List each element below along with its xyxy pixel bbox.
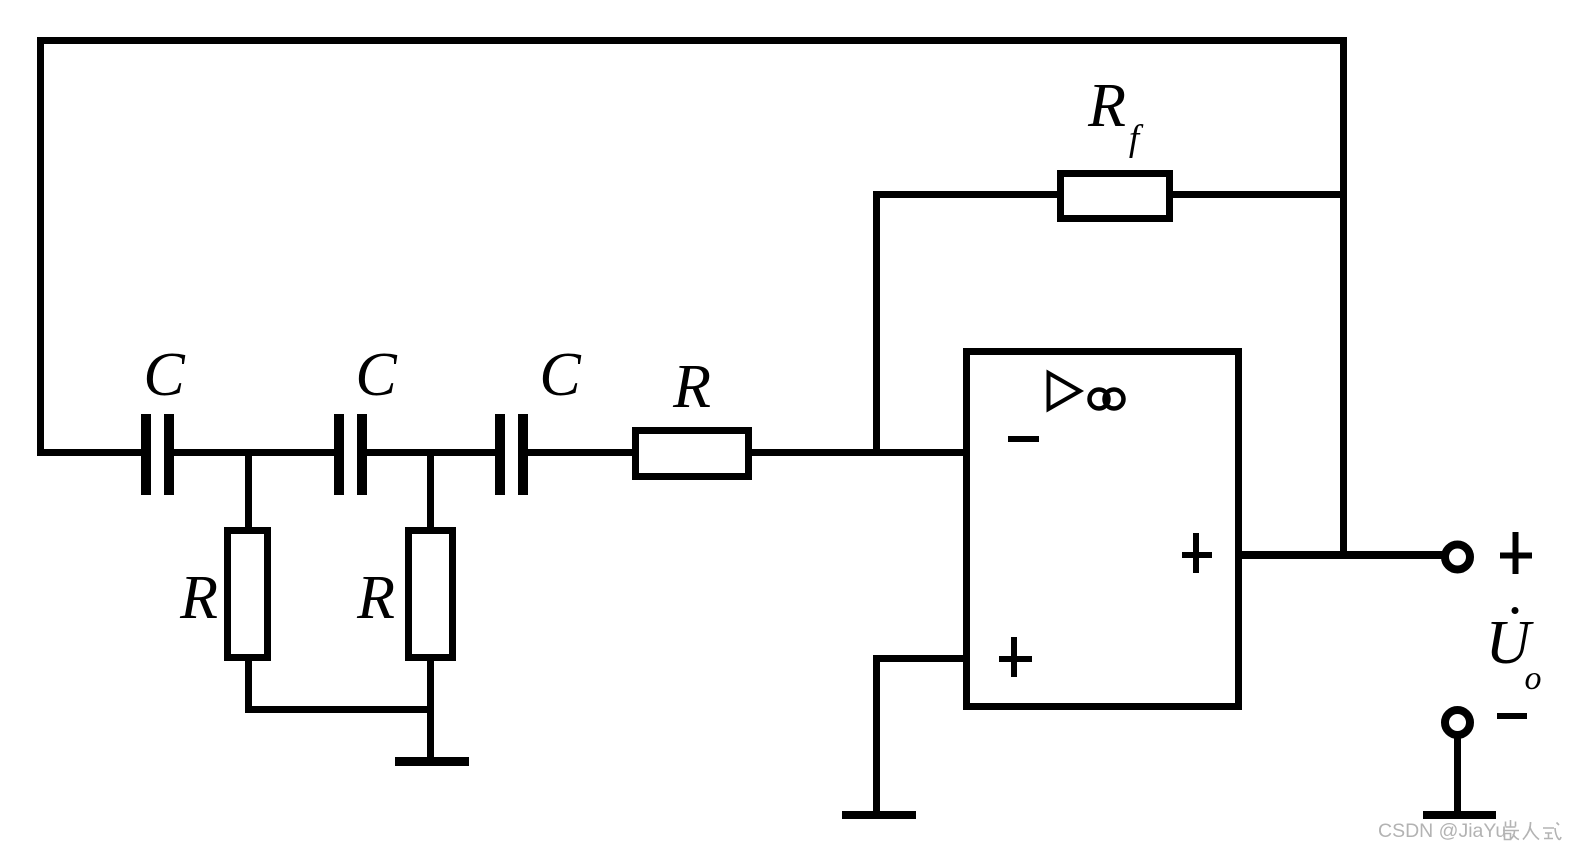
svg-text:CSDN @JiaYu: CSDN @JiaYu: [1378, 820, 1506, 842]
label Uo: [1486, 607, 1542, 697]
node J2 wire down: [427, 452, 434, 530]
capacitor C1: [141, 414, 174, 495]
op-amp output plus sign: [1182, 533, 1212, 573]
wire Rf left: [873, 191, 1061, 198]
op-amp minus input sign: [1008, 436, 1039, 442]
svg-text:C: C: [143, 341, 185, 409]
wire bottom horizontal: [245, 706, 434, 713]
resistor Rf: [1061, 174, 1170, 219]
svg-text:R: R: [356, 564, 395, 632]
wire C3 to R: [527, 449, 632, 456]
wire R1 bottom: [245, 661, 252, 713]
resistor R1 shunt: [228, 531, 268, 658]
wire lower terminal to ground: [1454, 735, 1461, 811]
watermark CSDN: [1378, 820, 1561, 842]
wire Rf right: [1173, 191, 1347, 198]
ground G3: [1423, 811, 1496, 819]
ground G1: [395, 757, 469, 766]
capacitor C3: [495, 414, 528, 495]
node J1 wire down: [245, 452, 252, 530]
wire noninverting input: [873, 655, 970, 662]
wire right vertical feedback: [1340, 37, 1347, 559]
op-amp gain triangle: [1049, 373, 1081, 409]
wire C1 to C2: [173, 449, 334, 456]
op-amp infinity symbol: [1090, 390, 1124, 409]
watermark glyph ru: [1523, 822, 1539, 840]
terminal lower circle: [1445, 710, 1470, 735]
plus sign output terminal: [1500, 532, 1532, 574]
wire left vertical: [37, 37, 44, 456]
wire output: [1242, 551, 1444, 559]
wire R to op-amp: [752, 449, 963, 456]
svg-text:o: o: [1525, 660, 1542, 697]
wire C2 to C3: [366, 449, 495, 456]
resistor R series: [636, 431, 749, 477]
wire main segment left to C1: [37, 449, 141, 456]
ground G2: [842, 811, 916, 819]
op-amp plus input sign: [999, 637, 1032, 677]
label Rf: [1087, 72, 1144, 159]
watermark glyph shi: [1543, 823, 1561, 840]
terminal output circle: [1445, 545, 1470, 570]
wire R2 to ground: [427, 661, 434, 757]
wire top feedback: [37, 37, 1347, 44]
svg-text:R: R: [672, 353, 711, 421]
resistor R2 shunt: [409, 531, 453, 658]
capacitor C2: [334, 414, 367, 495]
wire inverting node up: [873, 195, 880, 452]
op-amp U1 box: [967, 352, 1239, 707]
svg-text:R: R: [1087, 72, 1126, 140]
wire noninverting down to ground: [873, 655, 880, 811]
svg-text:C: C: [539, 341, 581, 409]
svg-text:C: C: [355, 341, 397, 409]
watermark glyph qian: [1503, 820, 1519, 840]
minus sign lower terminal: [1497, 713, 1527, 719]
svg-text:R: R: [179, 564, 218, 632]
